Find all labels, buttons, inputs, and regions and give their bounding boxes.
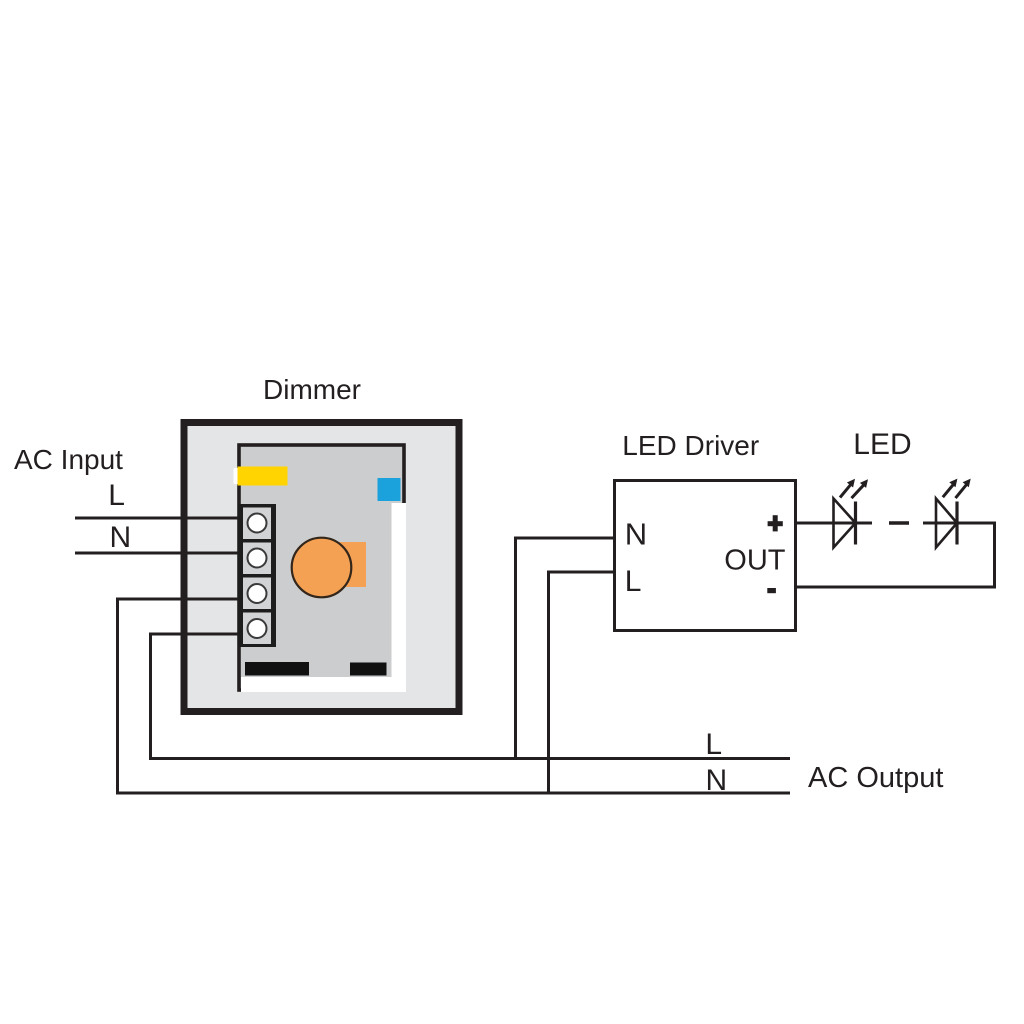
terminal screw 1	[248, 514, 267, 533]
yellow component	[238, 467, 288, 486]
wire LED2 to minus return	[797, 523, 995, 587]
wire dash to LED2	[923, 522, 957, 525]
LED D2	[936, 485, 967, 548]
orange potentiometer body	[330, 542, 366, 587]
terminal screw 2	[248, 549, 267, 568]
PCB white highlight strip bottom	[241, 677, 406, 692]
dimmer enclosure box	[184, 423, 459, 712]
terminal cell 4	[243, 613, 271, 645]
svg-text:LED: LED	[853, 428, 911, 461]
wire L input	[75, 517, 246, 520]
terminal cell 1	[243, 508, 271, 540]
svg-text:OUT: OUT	[724, 545, 786, 577]
svg-text:N: N	[625, 517, 647, 552]
orange knob	[292, 538, 352, 598]
svg-text:Dimmer: Dimmer	[263, 374, 361, 405]
black chip 1	[245, 662, 309, 676]
svg-text:N: N	[706, 764, 728, 797]
LED D1 arrowheads	[847, 479, 868, 488]
terminal screw 3	[248, 584, 267, 603]
PCB white highlight strip right	[392, 503, 407, 692]
terminal screw 4	[248, 619, 267, 638]
plus sign	[768, 515, 783, 531]
terminal block	[238, 504, 276, 647]
LED D1	[834, 485, 864, 548]
LED driver box	[615, 481, 796, 631]
svg-text:L: L	[625, 565, 642, 598]
blue component	[378, 478, 401, 501]
terminal cell 3	[243, 578, 271, 610]
svg-text:L: L	[705, 728, 722, 761]
minus sign	[767, 588, 776, 593]
svg-text:AC Output: AC Output	[808, 762, 943, 794]
dimmer PCB module	[239, 445, 404, 690]
wire driver L to N output line	[549, 572, 614, 793]
svg-text:AC Input: AC Input	[14, 444, 123, 475]
black chip 2	[350, 663, 387, 676]
LED D2 arrowheads	[949, 479, 970, 488]
svg-text:LED Driver: LED Driver	[622, 430, 759, 461]
wire driver N to L output line	[516, 538, 614, 759]
dash between LEDs	[889, 521, 909, 525]
svg-text:L: L	[108, 479, 125, 512]
wire dimmer terminal3 to AC output N line	[118, 599, 791, 793]
svg-text:N: N	[110, 521, 132, 554]
terminal cell 2	[243, 543, 271, 575]
yellow component white notch	[234, 468, 239, 484]
wire LED1 cathode lead	[855, 522, 872, 525]
wire + output to LED1	[797, 522, 855, 525]
wire dimmer terminal4 to AC output L line	[151, 634, 791, 759]
wire N input	[75, 552, 246, 555]
